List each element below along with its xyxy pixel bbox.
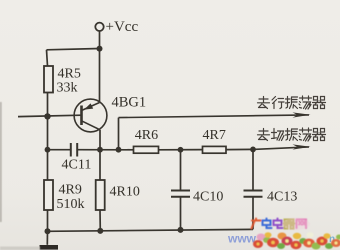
svg-text:4R7: 4R7 (203, 128, 226, 143)
svg-text:4R9: 4R9 (59, 183, 82, 198)
resistor 4R6 (134, 146, 159, 153)
wire: base lead-in (18, 115, 82, 116)
wire: bottom ground rail (48, 229, 254, 231)
resistor 4R9 (44, 180, 53, 210)
wire: mid rail to 4C11 left plate (48, 149, 71, 151)
wire: 4C10 leads (180, 150, 182, 230)
svg-text:4BG1: 4BG1 (112, 95, 147, 111)
junction: Vcc node (97, 46, 103, 52)
wire: top rail from 4R5 top to Vcc node (47, 49, 100, 50)
label 去行振荡器 (258, 96, 326, 109)
wire: line-oscillator output arrow (119, 112, 311, 117)
junction: 4R10 bottom node (97, 228, 103, 234)
svg-text:33k: 33k (57, 81, 78, 96)
svg-text:4C10: 4C10 (193, 190, 223, 205)
power +Vcc terminal circle (95, 23, 103, 31)
watermark 广电电器网 row (252, 219, 307, 229)
wire: 4R5 bottom to base node (47, 93, 49, 117)
wire: field-oscillator output arrow (253, 144, 311, 149)
junction: L-wire node (116, 147, 122, 153)
svg-text:4C11: 4C11 (62, 158, 92, 173)
junction: 4C13 node (250, 147, 256, 153)
wire: 4R10 column (99, 150, 101, 231)
wire: ground stub (46, 231, 48, 245)
resistor 4R5 (44, 66, 53, 93)
wire: L vertical to line-osc line (118, 118, 120, 150)
resistor 4R7 (203, 146, 227, 153)
capacitor 4C10 (171, 191, 190, 197)
label 去场振荡器 (258, 128, 326, 141)
wire: collector up to Vcc node (99, 49, 101, 103)
wire: mid-left node down to 4R9 (47, 150, 49, 180)
wire: 4R6 to 4R7 (159, 149, 203, 151)
wire: emitter down to mid rail (99, 130, 101, 150)
svg-text:www: www (227, 232, 257, 246)
scan smudge bottom-left (0, 247, 40, 250)
capacitor 4C11 (71, 143, 77, 157)
junction: ground-left node (45, 228, 51, 234)
resistor 4R10 (96, 180, 105, 210)
watermark flowers (253, 232, 340, 249)
junction: 4C10 bottom node (178, 227, 184, 233)
svg-text:510k: 510k (57, 197, 85, 212)
wire: rail down to 4R5 top (47, 50, 48, 66)
junction: mid-left node (45, 147, 51, 153)
wire: 4R9 bottom to ground rail (47, 210, 49, 231)
scan edge artifact left (0, 102, 2, 222)
wire: 4R7 to field node (226, 148, 253, 150)
wire: 4C11 right plate to 4R6 (78, 149, 134, 151)
svg-text:+Vcc: +Vcc (106, 19, 139, 35)
wire: base node down to mid rail (47, 116, 49, 149)
transistor 4BG1 (74, 99, 107, 132)
svg-text:4R5: 4R5 (58, 67, 81, 82)
svg-text:4R10: 4R10 (110, 185, 140, 200)
watermark blur halo over last chars (282, 218, 310, 230)
junction: 4C10 node (178, 147, 184, 153)
capacitor 4C13 (244, 191, 263, 197)
ground symbol (40, 245, 59, 250)
svg-text:4R6: 4R6 (135, 128, 158, 143)
junction: base node (44, 113, 50, 119)
wire: Vcc stub (99, 31, 101, 48)
wire: 4C13 leads (252, 149, 254, 229)
svg-text:4C13: 4C13 (267, 190, 297, 205)
junction: emitter node (97, 147, 103, 153)
